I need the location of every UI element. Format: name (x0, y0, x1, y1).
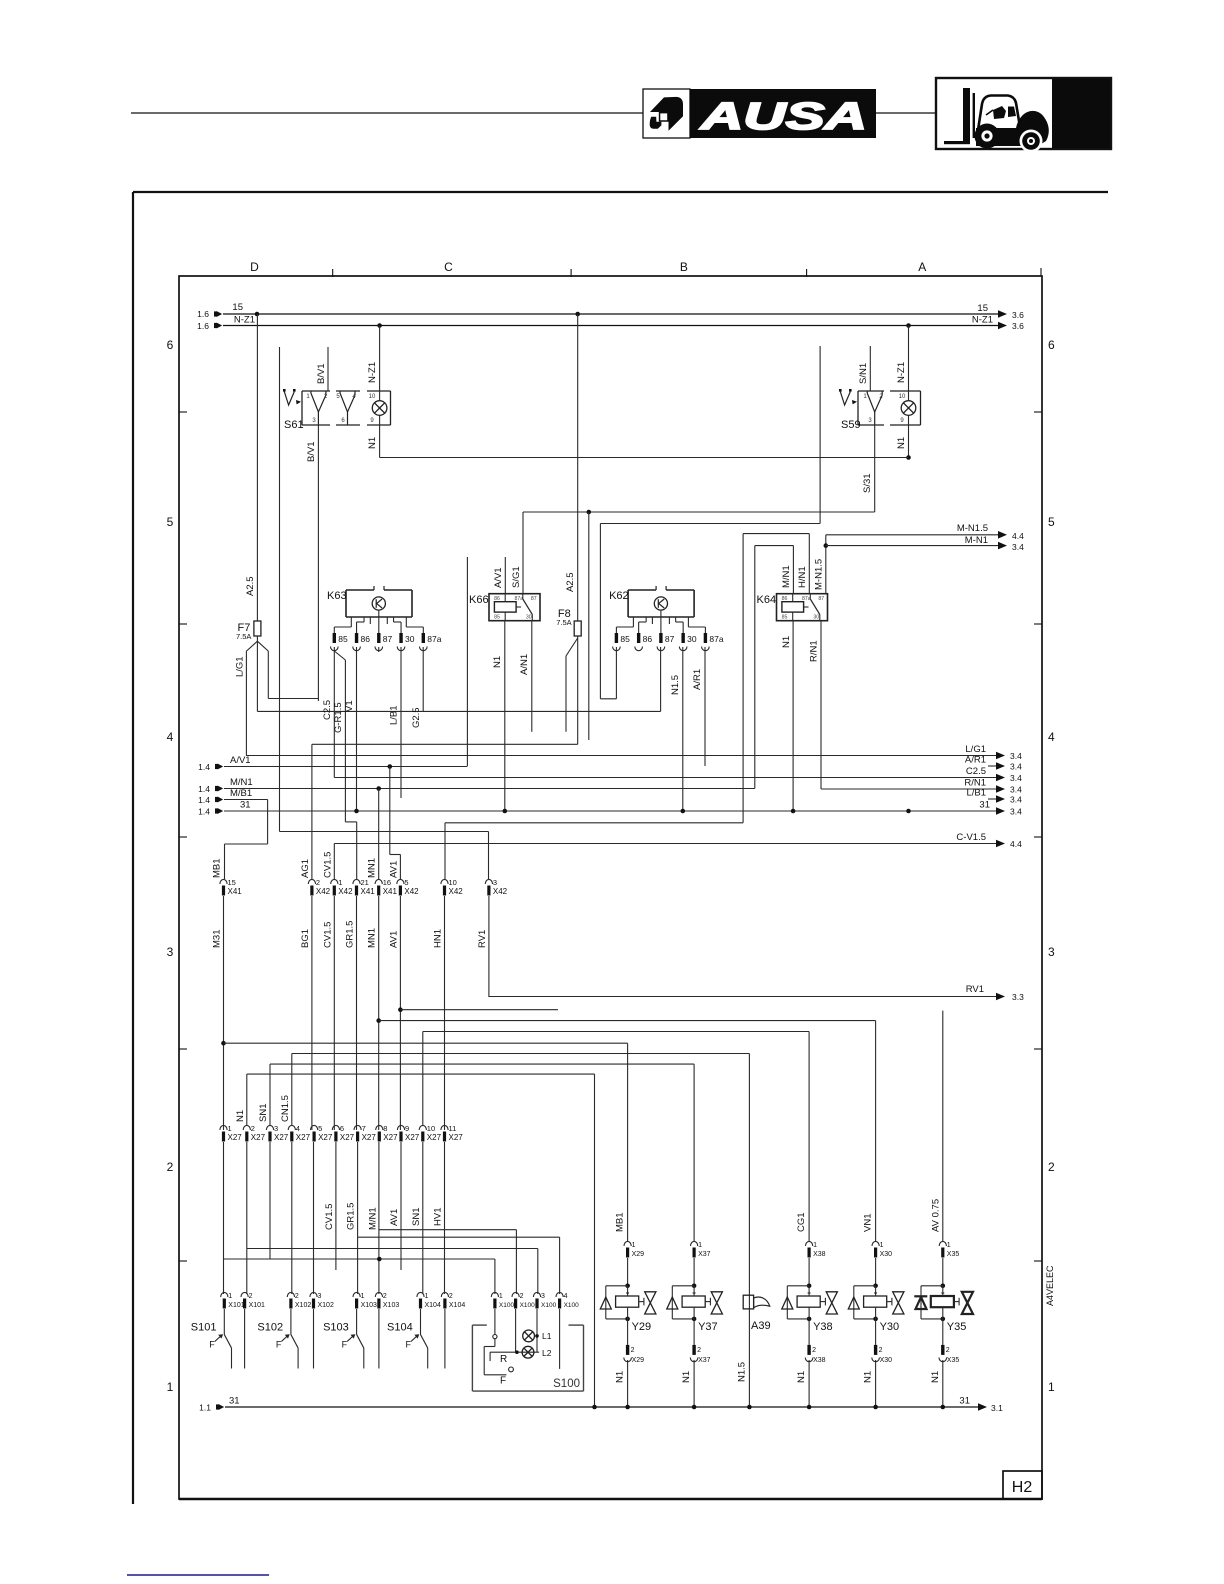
svg-text:SN1: SN1 (411, 1208, 422, 1226)
svg-text:X104: X104 (449, 1302, 465, 1309)
svg-text:86: 86 (782, 596, 788, 602)
wire G-R1.5 to X41:21 (334, 651, 345, 660)
svg-text:30: 30 (526, 615, 532, 621)
line X27:3 to X37 (270, 1063, 694, 1065)
connector X27 pin 11 (441, 1125, 448, 1130)
coil box (931, 1296, 954, 1307)
relay K64 (777, 594, 828, 621)
svg-text:X27: X27 (274, 1133, 289, 1142)
wire N1.5 below K62:30 (682, 647, 684, 811)
svg-text:X38: X38 (813, 1251, 826, 1258)
switch S104 with connector X104 (417, 1292, 424, 1297)
coil box (682, 1296, 705, 1307)
svg-text:X42: X42 (404, 887, 419, 896)
bus 31 mid from sheet 1.4 (215, 808, 218, 813)
svg-text:X27: X27 (318, 1133, 333, 1142)
svg-text:6: 6 (340, 1124, 344, 1133)
svg-text:X27: X27 (362, 1133, 377, 1142)
switch S61 (302, 390, 330, 392)
AUSA logo (643, 89, 690, 138)
X100 connector pins (491, 1292, 498, 1297)
svg-text:N-Z1: N-Z1 (234, 315, 255, 326)
valve Y35 with connector X35 (939, 1241, 946, 1246)
svg-text:7.5A: 7.5A (556, 618, 571, 627)
svg-text:D: D (250, 260, 259, 274)
svg-text:R/N1: R/N1 (809, 640, 820, 662)
svg-text:Y29: Y29 (632, 1321, 652, 1333)
svg-text:2: 2 (1048, 1160, 1055, 1174)
valve arrows (820, 1301, 825, 1303)
svg-text:21: 21 (361, 878, 369, 887)
svg-text:A/R1: A/R1 (965, 755, 986, 766)
bypass loop (921, 1285, 943, 1287)
svg-text:L/B1: L/B1 (389, 705, 400, 725)
svg-text:1.4: 1.4 (198, 762, 210, 772)
svg-text:X27: X27 (449, 1133, 464, 1142)
connector X41 pin 16 (375, 879, 382, 884)
svg-text:4: 4 (167, 730, 174, 744)
svg-text:1: 1 (813, 1242, 817, 1249)
wire stub left of S61 to RV1 feed (279, 347, 281, 832)
svg-text:2: 2 (520, 1293, 524, 1300)
S61 indicator lamp (372, 401, 387, 416)
wire S/G1 - S/31 link (523, 511, 875, 513)
svg-text:C2.5: C2.5 (322, 700, 333, 720)
svg-text:X100: X100 (499, 1302, 515, 1309)
svg-text:L2: L2 (542, 1348, 552, 1358)
svg-text:X42: X42 (449, 887, 464, 896)
svg-text:X27: X27 (228, 1133, 243, 1142)
svg-text:F: F (209, 1340, 215, 1350)
wire M/B1 jog to X41:15 (267, 800, 269, 845)
svg-text:3: 3 (318, 1293, 322, 1300)
svg-text:N-Z1: N-Z1 (972, 315, 993, 326)
wire from F8 down to AG1 feed (577, 636, 579, 744)
svg-text:X27: X27 (427, 1133, 442, 1142)
svg-text:15: 15 (977, 303, 988, 314)
svg-text:G2.5: G2.5 (411, 707, 422, 728)
lower pin (808, 1319, 810, 1345)
connector X42 pin 10 (441, 879, 448, 884)
valve Y37 with connector X37 (691, 1241, 698, 1246)
wire L/G1 from F7 (246, 641, 257, 651)
svg-text:3.4: 3.4 (1010, 751, 1022, 761)
svg-text:MB1: MB1 (212, 858, 223, 878)
connector X42 pin 2 (308, 879, 315, 884)
svg-text:3.4: 3.4 (1010, 795, 1022, 805)
svg-text:6: 6 (167, 338, 174, 352)
svg-text:X103: X103 (361, 1302, 377, 1309)
svg-text:N-Z1: N-Z1 (367, 362, 378, 383)
lower pin (627, 1319, 629, 1345)
svg-text:X29: X29 (632, 1251, 645, 1258)
svg-text:Y38: Y38 (813, 1321, 833, 1333)
svg-text:1.6: 1.6 (197, 309, 209, 319)
S61 contact 1 (311, 393, 326, 412)
coil box (616, 1296, 639, 1307)
wire S-loop to K62 pin 85 (599, 524, 601, 699)
svg-text:K63: K63 (327, 590, 347, 602)
connector X27 pin 7 (354, 1125, 361, 1130)
svg-text:85: 85 (494, 615, 500, 621)
svg-text:RV1: RV1 (966, 984, 984, 995)
wire stub K63:87 (378, 647, 380, 652)
svg-text:2: 2 (316, 878, 320, 887)
svg-text:K62: K62 (609, 590, 629, 602)
svg-text:B/V1: B/V1 (316, 363, 327, 384)
svg-text:Y37: Y37 (698, 1321, 718, 1333)
fuse F7 (254, 621, 261, 636)
S59 contact (867, 393, 882, 412)
lower pin (693, 1319, 695, 1345)
svg-text:1: 1 (425, 1293, 429, 1300)
connector X27 pin 2 (243, 1125, 250, 1130)
wire K62:87 to supply (660, 647, 662, 711)
connector X42 pin 3 (485, 879, 492, 884)
wire stub above K66 left (466, 557, 468, 766)
svg-text:1: 1 (698, 1242, 702, 1249)
svg-text:87a: 87a (802, 596, 811, 602)
svg-text:N1: N1 (781, 636, 792, 648)
svg-text:2: 2 (251, 1124, 255, 1133)
wires below X27 (223, 1142, 225, 1294)
wire N1 between S61 and S59 lamps (380, 457, 909, 459)
wire R/N1 below K64 (820, 621, 822, 789)
svg-text:CV1.5: CV1.5 (322, 922, 333, 948)
wire C2.5 below K63:85 (333, 647, 335, 778)
bypass loop (854, 1285, 876, 1287)
svg-text:1: 1 (228, 1124, 232, 1133)
forklift icon box (936, 78, 1111, 149)
svg-text:S101: S101 (191, 1322, 217, 1334)
bus N-Z1 (top) (223, 325, 1000, 327)
svg-text:9: 9 (405, 1124, 409, 1133)
node N1 at S59 lamp return (906, 455, 911, 460)
svg-text:AUSA: AUSA (699, 96, 867, 138)
svg-text:30: 30 (687, 634, 697, 644)
svg-text:1.6: 1.6 (197, 321, 209, 331)
switch S102 with connector X102 (287, 1292, 294, 1297)
svg-text:AV1: AV1 (388, 931, 399, 948)
svg-text:5: 5 (167, 515, 174, 529)
svg-text:X27: X27 (383, 1133, 398, 1142)
line AV1 branch (400, 1009, 558, 1011)
svg-text:10: 10 (369, 394, 376, 400)
line to X100:1 (224, 1258, 495, 1260)
S61 contact 2 (340, 393, 355, 412)
svg-text:M/N1: M/N1 (230, 777, 253, 788)
valve arrows (887, 1301, 892, 1303)
bypass loop (606, 1285, 628, 1287)
connector X27 pin 3 (266, 1125, 273, 1130)
wire S/G1 above K66 (522, 512, 524, 594)
svg-text:87: 87 (665, 634, 675, 644)
switch S101 with connector X101 (221, 1292, 228, 1297)
svg-text:3.4: 3.4 (1012, 542, 1024, 552)
wire B/V1 above S61 (327, 347, 329, 391)
wire AV1 from A/V1 node to X42:5 (389, 767, 391, 855)
row ticks (179, 411, 187, 413)
svg-text:8: 8 (383, 1124, 387, 1133)
svg-text:86: 86 (361, 634, 371, 644)
bus 15 (top) (223, 313, 1000, 315)
svg-text:1: 1 (499, 1293, 503, 1300)
line L/G1 (246, 755, 998, 757)
svg-text:A: A (918, 260, 926, 274)
svg-text:2: 2 (249, 1293, 253, 1300)
svg-text:S102: S102 (257, 1322, 283, 1334)
coil box (864, 1296, 887, 1307)
svg-text:X101: X101 (249, 1302, 265, 1309)
arrow L/B1 (988, 798, 998, 800)
svg-text:31: 31 (979, 800, 990, 811)
svg-text:N1: N1 (863, 1371, 874, 1383)
svg-text:3.4: 3.4 (1010, 807, 1022, 817)
svg-text:K66: K66 (469, 594, 489, 606)
line to X100:4 (358, 1236, 560, 1238)
svg-text:N-Z1: N-Z1 (896, 362, 907, 383)
wire V1 below K63:86 to node 31 (356, 647, 358, 811)
svg-text:X41: X41 (361, 887, 376, 896)
line to X100:2 (379, 1229, 516, 1231)
wire HN1 feed to X42:10 (445, 822, 743, 824)
svg-text:5: 5 (318, 1124, 322, 1133)
header rule right (876, 112, 936, 114)
svg-text:N1: N1 (796, 1371, 807, 1383)
svg-text:10: 10 (449, 878, 457, 887)
svg-text:11: 11 (449, 1124, 457, 1133)
outer border (132, 192, 134, 1504)
svg-text:X30: X30 (880, 1251, 893, 1258)
svg-text:86: 86 (494, 596, 500, 602)
K64 loop inner (M/N1) (754, 546, 756, 789)
svg-text:87: 87 (818, 596, 824, 602)
wire down from S/G1 node (588, 512, 590, 740)
svg-text:3.3: 3.3 (1012, 992, 1024, 1002)
svg-text:BG1: BG1 (300, 929, 311, 948)
svg-text:1.4: 1.4 (198, 784, 210, 794)
connector X42 pin 1 (331, 879, 338, 884)
wire A/N1 below K66 (531, 621, 533, 732)
wire A/V1 above K66 (504, 557, 506, 594)
svg-text:S104: S104 (387, 1322, 413, 1334)
svg-text:HN1: HN1 (433, 929, 444, 948)
svg-text:S/G1: S/G1 (511, 566, 522, 588)
svg-text:3.6: 3.6 (1012, 321, 1024, 331)
svg-text:X42: X42 (493, 887, 508, 896)
svg-text:X104: X104 (425, 1302, 441, 1309)
svg-text:L/G1: L/G1 (965, 744, 986, 755)
relay K63 (345, 590, 347, 617)
coil box (797, 1296, 820, 1307)
svg-text:CG1: CG1 (796, 1212, 807, 1232)
wire A2.5 from bus 15 to F8 (577, 314, 579, 621)
svg-text:VN1: VN1 (863, 1214, 874, 1232)
svg-text:F: F (276, 1340, 282, 1350)
svg-text:X37: X37 (698, 1357, 711, 1364)
K64 loop outer to HN1 feed (742, 534, 744, 823)
svg-text:2: 2 (295, 1293, 299, 1300)
line X27:4 to A39 (292, 1053, 750, 1055)
svg-text:CN1.5: CN1.5 (280, 1095, 291, 1122)
svg-text:B/V1: B/V1 (306, 441, 317, 462)
svg-text:X103: X103 (383, 1302, 399, 1309)
svg-text:N1: N1 (615, 1371, 626, 1383)
connector X27 pin 5 (311, 1125, 318, 1130)
svg-text:MB1: MB1 (615, 1212, 626, 1232)
wire L/B1 below K63:30 (400, 647, 402, 798)
svg-text:86: 86 (643, 634, 653, 644)
S59 indicator lamp (901, 401, 916, 416)
svg-text:1: 1 (1048, 1380, 1055, 1394)
wire N-Z1 to S59 lamp (908, 326, 910, 401)
svg-text:CV1.5: CV1.5 (324, 1204, 335, 1230)
svg-text:AV1: AV1 (389, 1209, 400, 1226)
connector X27 pin 9 (397, 1125, 404, 1130)
svg-text:GR1.5: GR1.5 (346, 1203, 357, 1230)
bottom-left blue mark (127, 1574, 269, 1576)
svg-text:C2.5: C2.5 (966, 766, 986, 777)
svg-text:H/N1: H/N1 (797, 566, 808, 588)
svg-text:87a: 87a (514, 596, 523, 602)
svg-text:X42: X42 (338, 887, 353, 896)
svg-text:4: 4 (564, 1293, 568, 1300)
svg-text:16: 16 (383, 878, 391, 887)
svg-text:X35: X35 (947, 1251, 960, 1258)
svg-text:A2.5: A2.5 (245, 576, 256, 596)
relay K62 (627, 590, 629, 617)
svg-text:1.1: 1.1 (199, 1403, 211, 1413)
svg-text:A4VELEC: A4VELEC (1045, 1265, 1055, 1306)
svg-text:X38: X38 (813, 1357, 826, 1364)
connector X27 pin 8 (376, 1125, 383, 1130)
line M-N1.5 to sheet 4.4 (826, 534, 1000, 536)
svg-text:X27: X27 (340, 1133, 355, 1142)
svg-text:B: B (680, 260, 688, 274)
svg-text:X29: X29 (632, 1357, 645, 1364)
wire F8 left diagonal stub (566, 638, 578, 656)
forklift drawing (944, 88, 1049, 153)
svg-text:2: 2 (812, 1347, 816, 1354)
svg-text:X101: X101 (228, 1302, 244, 1309)
svg-text:1: 1 (361, 1293, 365, 1300)
connector X27 pin 4 (288, 1125, 295, 1130)
S100 internals (494, 1309, 496, 1335)
svg-text:M-N1: M-N1 (965, 535, 988, 546)
svg-text:X27: X27 (296, 1133, 311, 1142)
connector X41 pin 21 (353, 879, 360, 884)
connector X27 pin 1 (220, 1125, 227, 1130)
line M/B1 from sheet 1.4 (215, 797, 218, 802)
svg-text:L1: L1 (542, 1331, 552, 1341)
svg-text:S/31: S/31 (862, 473, 873, 493)
line M-N1 to sheet 3.4 (824, 543, 829, 548)
svg-text:F: F (342, 1340, 348, 1350)
line X27:10 to X38 (CG1) (423, 1031, 809, 1033)
svg-text:K64: K64 (757, 594, 777, 606)
svg-text:1: 1 (632, 1242, 636, 1249)
svg-text:A/V1: A/V1 (493, 567, 504, 588)
svg-text:87a: 87a (427, 634, 441, 644)
connector X41 pin 15 (220, 879, 227, 884)
svg-text:Y30: Y30 (880, 1321, 900, 1333)
svg-text:10: 10 (427, 1124, 435, 1133)
svg-text:S61: S61 (284, 419, 304, 431)
svg-text:F: F (406, 1340, 412, 1350)
svg-text:X102: X102 (318, 1302, 334, 1309)
svg-text:85: 85 (782, 615, 788, 621)
svg-text:85: 85 (338, 634, 348, 644)
svg-text:X30: X30 (880, 1357, 893, 1364)
svg-text:87a: 87a (709, 634, 723, 644)
svg-text:N1: N1 (367, 437, 378, 449)
svg-text:X35: X35 (947, 1357, 960, 1364)
svg-text:M/B1: M/B1 (230, 788, 252, 799)
valve Y30 with connector X30 (872, 1241, 879, 1246)
connector X27 pin 10 (419, 1125, 426, 1130)
wire S-loop upper (819, 346, 821, 524)
valve Y38 with connector X38 (806, 1241, 813, 1246)
svg-text:15: 15 (232, 302, 243, 313)
svg-text:G-R1.5: G-R1.5 (333, 702, 344, 733)
switch S59 (858, 390, 884, 392)
svg-text:X42: X42 (316, 887, 331, 896)
svg-text:N1: N1 (896, 437, 907, 449)
svg-text:X37: X37 (698, 1251, 711, 1258)
connector X27 pin 6 (332, 1125, 339, 1130)
svg-text:15: 15 (228, 878, 236, 887)
svg-text:10: 10 (899, 394, 906, 400)
svg-text:X41: X41 (383, 887, 398, 896)
svg-text:M-N1.5: M-N1.5 (957, 523, 988, 534)
line X27:2 to ground rail (247, 1073, 595, 1075)
wire M-N1.5 into K64 (825, 535, 827, 594)
svg-text:A/V1: A/V1 (230, 755, 251, 766)
svg-text:F: F (500, 1376, 506, 1387)
svg-text:M-N1.5: M-N1.5 (814, 559, 825, 590)
svg-text:N1: N1 (492, 656, 503, 668)
svg-text:X100: X100 (520, 1302, 536, 1309)
svg-text:AG1: AG1 (300, 859, 311, 878)
wire 87/87a supply from F7 (256, 636, 258, 711)
svg-text:2: 2 (449, 1293, 453, 1300)
arrow A/R1 (988, 765, 998, 767)
svg-text:X27: X27 (251, 1133, 266, 1142)
svg-text:M/N1: M/N1 (781, 565, 792, 588)
svg-text:3.4: 3.4 (1010, 785, 1022, 795)
svg-text:2: 2 (383, 1293, 387, 1300)
svg-text:R: R (500, 1354, 507, 1365)
svg-text:87: 87 (383, 634, 393, 644)
control unit S100 (471, 1325, 473, 1391)
wire N1 below K64 (792, 621, 794, 811)
valve arrows (639, 1301, 644, 1303)
wires below connector row 1 (223, 896, 225, 1130)
svg-text:N1: N1 (681, 1371, 692, 1383)
lower pin (875, 1319, 877, 1345)
svg-text:X27: X27 (405, 1133, 420, 1142)
wire N1 below S61 lamp (379, 415, 381, 457)
svg-text:X41: X41 (228, 887, 243, 896)
line M/N1 from sheet 1.4 (215, 786, 218, 791)
svg-text:7.5A: 7.5A (236, 632, 251, 641)
wire A2.5 from bus 15 to F7 (256, 314, 258, 621)
svg-text:2: 2 (879, 1347, 883, 1354)
line A/V1 from sheet 1.4 (215, 764, 218, 769)
svg-text:V1: V1 (344, 700, 355, 712)
wire N1 below K66 (504, 621, 506, 811)
svg-text:6: 6 (1048, 338, 1055, 352)
